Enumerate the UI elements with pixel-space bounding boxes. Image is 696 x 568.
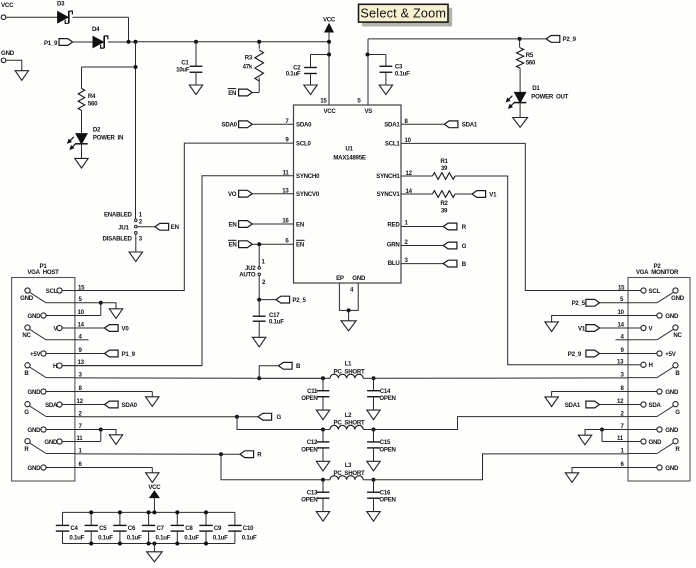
svg-text:BLU: BLU xyxy=(388,260,401,267)
svg-text:C4: C4 xyxy=(70,525,78,532)
svg-text:0.1uF: 0.1uF xyxy=(286,71,301,78)
svg-text:EN: EN xyxy=(228,90,236,97)
svg-text:C9: C9 xyxy=(214,525,222,532)
svg-text:R5: R5 xyxy=(526,52,534,59)
svg-text:11: 11 xyxy=(77,435,84,442)
svg-text:SCL: SCL xyxy=(46,288,58,295)
svg-text:SCL0: SCL0 xyxy=(296,140,311,147)
svg-text:R2: R2 xyxy=(440,200,448,207)
svg-text:L3: L3 xyxy=(345,462,352,469)
svg-text:0.1uF: 0.1uF xyxy=(242,534,257,541)
svg-text:0.1uF: 0.1uF xyxy=(98,534,113,541)
svg-text:0.1uF: 0.1uF xyxy=(69,534,84,541)
svg-text:VGA HOST: VGA HOST xyxy=(27,269,59,276)
svg-text:GND: GND xyxy=(28,465,42,472)
svg-text:V0: V0 xyxy=(122,325,130,332)
svg-text:SDA1: SDA1 xyxy=(384,122,400,129)
svg-text:EP: EP xyxy=(336,275,344,282)
svg-text:10: 10 xyxy=(618,309,625,316)
svg-text:PC SHORT: PC SHORT xyxy=(334,420,365,427)
svg-text:GND: GND xyxy=(20,295,34,302)
svg-text:V1: V1 xyxy=(578,325,586,332)
svg-text:EN: EN xyxy=(171,224,179,231)
svg-text:C12: C12 xyxy=(307,439,318,446)
svg-text:JU1: JU1 xyxy=(118,224,129,231)
svg-text:15: 15 xyxy=(618,285,625,292)
svg-text:DISABLED: DISABLED xyxy=(103,235,133,242)
svg-text:PC SHORT: PC SHORT xyxy=(334,470,365,477)
svg-text:RED: RED xyxy=(387,222,400,229)
svg-text:G: G xyxy=(24,409,29,416)
svg-text:NC: NC xyxy=(22,332,31,339)
svg-text:10uF: 10uF xyxy=(176,67,190,74)
svg-text:13: 13 xyxy=(617,358,624,365)
svg-text:POWER OUT: POWER OUT xyxy=(531,94,568,101)
svg-text:C15: C15 xyxy=(380,439,391,446)
svg-text:P2_9: P2_9 xyxy=(563,36,577,43)
svg-text:0.1uF: 0.1uF xyxy=(395,71,410,78)
svg-text:H: H xyxy=(53,363,57,370)
svg-text:SYNCH1: SYNCH1 xyxy=(376,173,400,180)
svg-text:VO: VO xyxy=(228,191,237,198)
svg-text:D1: D1 xyxy=(532,85,540,92)
svg-text:D4: D4 xyxy=(92,26,100,33)
svg-text:OPEN: OPEN xyxy=(301,497,317,504)
svg-text:G: G xyxy=(675,409,680,416)
svg-text:VCC: VCC xyxy=(323,17,336,24)
svg-text:SDA: SDA xyxy=(45,402,58,409)
svg-text:12: 12 xyxy=(77,398,84,405)
svg-text:NC: NC xyxy=(673,332,682,339)
svg-text:P1_9: P1_9 xyxy=(44,40,58,47)
svg-text:SCL: SCL xyxy=(649,288,661,295)
svg-text:EN: EN xyxy=(296,242,304,249)
svg-text:V1: V1 xyxy=(489,191,497,198)
svg-text:AUTO: AUTO xyxy=(239,272,256,279)
svg-text:0.1uF: 0.1uF xyxy=(127,534,142,541)
svg-text:OPEN: OPEN xyxy=(379,395,395,402)
svg-text:L2: L2 xyxy=(345,412,352,419)
svg-text:GND: GND xyxy=(352,275,366,282)
svg-text:0.1uF: 0.1uF xyxy=(156,534,171,541)
svg-text:14: 14 xyxy=(618,321,625,328)
svg-text:560: 560 xyxy=(526,60,536,67)
svg-text:C11: C11 xyxy=(307,388,318,395)
svg-text:12: 12 xyxy=(617,398,624,405)
svg-text:10: 10 xyxy=(78,309,85,316)
svg-text:R3: R3 xyxy=(245,54,253,61)
svg-text:13: 13 xyxy=(78,359,85,366)
svg-text:U1: U1 xyxy=(345,146,353,153)
svg-text:14: 14 xyxy=(78,321,85,328)
svg-text:SYNCV1: SYNCV1 xyxy=(377,191,401,198)
svg-text:GND: GND xyxy=(44,439,58,446)
svg-text:GND: GND xyxy=(28,427,42,434)
svg-text:VGA MONITOR: VGA MONITOR xyxy=(636,269,679,276)
svg-text:C1: C1 xyxy=(181,59,189,66)
svg-text:SDA: SDA xyxy=(649,402,662,409)
svg-text:G: G xyxy=(462,243,467,250)
svg-text:G: G xyxy=(277,414,282,421)
svg-text:OPEN: OPEN xyxy=(301,446,317,453)
svg-text:C6: C6 xyxy=(128,525,136,532)
svg-text:R4: R4 xyxy=(88,93,96,100)
svg-text:VCC: VCC xyxy=(1,2,14,9)
svg-text:GND: GND xyxy=(1,50,15,57)
svg-text:P1_9: P1_9 xyxy=(122,351,136,358)
svg-text:D2: D2 xyxy=(93,127,101,134)
svg-text:Select & Zoom: Select & Zoom xyxy=(360,7,446,21)
svg-text:39: 39 xyxy=(441,207,448,214)
svg-text:VS: VS xyxy=(364,108,372,115)
svg-text:15: 15 xyxy=(78,285,85,292)
svg-text:EN: EN xyxy=(296,221,304,228)
svg-text:GND: GND xyxy=(665,465,679,472)
svg-text:0.1uF: 0.1uF xyxy=(184,534,199,541)
svg-text:11: 11 xyxy=(617,435,624,442)
svg-text:C10: C10 xyxy=(243,525,254,532)
svg-text:EN: EN xyxy=(229,221,237,228)
svg-text:MAX14895E: MAX14895E xyxy=(333,155,365,162)
svg-text:L1: L1 xyxy=(345,361,352,368)
svg-text:GND: GND xyxy=(665,389,679,396)
svg-text:C5: C5 xyxy=(99,525,107,532)
svg-text:VCC: VCC xyxy=(148,484,161,491)
svg-text:SYNCH0: SYNCH0 xyxy=(296,173,320,180)
svg-text:H: H xyxy=(649,362,653,369)
svg-text:OPEN: OPEN xyxy=(379,446,395,453)
svg-text:SDA0: SDA0 xyxy=(296,122,312,129)
svg-text:C13: C13 xyxy=(307,489,318,496)
svg-text:39: 39 xyxy=(441,165,448,172)
svg-text:VCC: VCC xyxy=(323,108,336,115)
svg-text:+5V: +5V xyxy=(30,351,41,358)
svg-text:C8: C8 xyxy=(185,525,193,532)
svg-text:OPEN: OPEN xyxy=(379,497,395,504)
svg-text:SDA1: SDA1 xyxy=(565,402,581,409)
svg-text:GND: GND xyxy=(665,313,679,320)
svg-text:C16: C16 xyxy=(380,489,391,496)
svg-text:+5V: +5V xyxy=(665,351,676,358)
svg-text:EN: EN xyxy=(229,242,237,249)
svg-text:GRN: GRN xyxy=(387,242,400,249)
svg-text:GND: GND xyxy=(671,295,685,302)
svg-text:ENABLED: ENABLED xyxy=(104,212,133,219)
svg-text:C7: C7 xyxy=(157,525,165,532)
svg-text:GND: GND xyxy=(28,389,42,396)
svg-text:C14: C14 xyxy=(380,388,391,395)
svg-text:0.1uF: 0.1uF xyxy=(269,318,284,325)
svg-text:SDA1: SDA1 xyxy=(462,122,478,129)
svg-text:P2_5: P2_5 xyxy=(572,300,586,307)
svg-text:0.1uF: 0.1uF xyxy=(213,534,228,541)
svg-text:SYNCV0: SYNCV0 xyxy=(296,191,320,198)
svg-text:SCL1: SCL1 xyxy=(385,140,400,147)
svg-text:47k: 47k xyxy=(243,63,253,70)
svg-text:SDA0: SDA0 xyxy=(222,122,238,129)
svg-text:P2_9: P2_9 xyxy=(568,351,582,358)
svg-text:560: 560 xyxy=(88,100,98,107)
svg-text:GND: GND xyxy=(649,439,663,446)
svg-text:PC SHORT: PC SHORT xyxy=(334,368,365,375)
svg-text:SDA0: SDA0 xyxy=(122,402,138,409)
svg-text:15: 15 xyxy=(320,98,327,105)
svg-text:OPEN: OPEN xyxy=(301,395,317,402)
svg-text:D3: D3 xyxy=(57,0,65,7)
svg-text:GND: GND xyxy=(665,427,679,434)
svg-text:P2_5: P2_5 xyxy=(292,297,306,304)
svg-text:R1: R1 xyxy=(440,158,448,165)
svg-text:C3: C3 xyxy=(395,63,403,70)
svg-text:GND: GND xyxy=(28,313,42,320)
svg-text:POWER IN: POWER IN xyxy=(93,134,123,141)
